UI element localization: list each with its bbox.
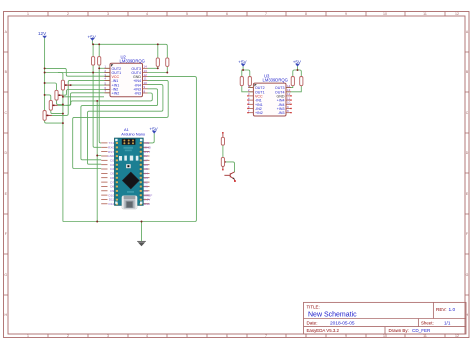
U3 pin numbers	[248, 84, 291, 113]
resistor R pullup2 (x99)	[98, 57, 101, 66]
potentiometer RP D	[43, 111, 52, 121]
wire subcircuit pot wiper to transistor	[226, 162, 235, 172]
chip diamond	[122, 172, 139, 189]
svg-text:1.0: 1.0	[449, 307, 456, 313]
caps row	[119, 156, 138, 161]
U2 pin stubs left	[105, 68, 111, 93]
svg-text:2: 2	[67, 334, 69, 338]
svg-text:3: 3	[107, 12, 109, 16]
+5V flag U2	[88, 35, 97, 41]
+5V flag U3 right	[293, 59, 302, 66]
wire pot C bottom join	[51, 110, 63, 113]
svg-text:10: 10	[383, 12, 387, 16]
svg-text:2018-05-05: 2018-05-05	[330, 320, 355, 326]
svg-text:8: 8	[305, 12, 307, 16]
svg-text:LM339DRQG: LM339DRQG	[263, 78, 288, 83]
svg-text:D10: D10	[109, 193, 115, 197]
wire GND net drop from hairpin to arduino row4	[97, 101, 101, 156]
resistor R pullup1 (x93)	[92, 57, 95, 66]
svg-text:12: 12	[455, 334, 459, 338]
svg-text:11: 11	[423, 12, 427, 16]
svg-text:-IN3: -IN3	[278, 111, 285, 115]
svg-text:3: 3	[107, 334, 109, 338]
nano silk	[127, 191, 134, 193]
title block text	[307, 305, 456, 334]
U3 pin names right	[275, 86, 285, 115]
wire U2 pin13 to pullup	[148, 66, 168, 72]
resistor U3 pullup right2	[300, 77, 303, 86]
svg-text:A5: A5	[144, 167, 148, 171]
svg-text:RST: RST	[144, 150, 150, 154]
border ticks right	[465, 52, 469, 295]
usb connector	[122, 196, 137, 209]
svg-text:A7: A7	[144, 159, 148, 163]
arduino pin stubs right	[143, 143, 149, 204]
resistor R pullup4 (x167)	[166, 58, 169, 67]
svg-text:TITLE:: TITLE:	[307, 305, 320, 310]
svg-text:9: 9	[345, 12, 347, 16]
resistor R sub	[221, 132, 224, 145]
wire ground return from pot A bottom	[62, 90, 64, 222]
svg-text:5: 5	[186, 12, 188, 16]
wire U2 GND pin12 big loop	[63, 77, 197, 222]
resistor U3 pullup right1	[291, 77, 294, 86]
U2 pin stubs right	[143, 68, 148, 93]
wire pullup to U2 pin1 OUT2	[99, 67, 110, 69]
svg-text:4: 4	[146, 12, 148, 16]
svg-text:4: 4	[146, 334, 148, 338]
resistor U3 pullup left2	[248, 77, 251, 86]
wire pot B wiper to U2 pin6	[63, 90, 110, 96]
arduino pin labels right	[144, 141, 152, 206]
wire pot A top arc to pin2 line	[58, 73, 63, 81]
svg-text:D2: D2	[110, 159, 114, 163]
svg-text:New Schematic: New Schematic	[308, 311, 357, 318]
U3 pin stubs right	[286, 88, 291, 113]
svg-text:RST: RST	[108, 150, 114, 154]
svg-text:TX1: TX1	[109, 141, 115, 145]
U2 pin names left	[112, 67, 122, 96]
potentiometer RP sub	[221, 157, 224, 170]
wire U3 left pullup bottoms	[242, 86, 254, 92]
svg-text:+5V: +5V	[293, 59, 302, 64]
wire pot B bottom join	[57, 100, 63, 104]
wire rail to pot C top	[45, 95, 51, 101]
arduino board pcb	[115, 138, 144, 209]
svg-text:D13: D13	[144, 202, 150, 206]
resistor R pullup3 (x158)	[156, 58, 159, 67]
+12V flag	[38, 31, 47, 39]
transistor Q1	[224, 172, 235, 182]
ISP header	[122, 139, 136, 145]
wire hairpin pin8	[67, 93, 153, 105]
border ticks left	[4, 52, 9, 295]
border ticks bottom	[48, 334, 445, 338]
wire ground stem	[141, 222, 143, 242]
wire hairpin pin9	[81, 89, 158, 160]
border ticks top	[48, 12, 445, 17]
wire pot D wiper to U2 pin4	[52, 80, 110, 115]
wire arduino GND pin to ground net	[96, 156, 98, 222]
svg-text:VIN: VIN	[144, 141, 149, 145]
svg-text:2: 2	[67, 12, 69, 16]
svg-text:+IN2: +IN2	[255, 111, 263, 115]
potentiometer RP A	[61, 80, 71, 90]
+5V flag arduino	[149, 126, 158, 133]
silk text ARDUINO	[124, 147, 134, 149]
svg-text:12: 12	[455, 12, 459, 16]
svg-text:+5V: +5V	[149, 126, 158, 131]
arduino pin labels left	[107, 141, 115, 206]
wire pullup left bottoms	[93, 65, 99, 72]
svg-text:D4: D4	[110, 167, 114, 171]
title block	[304, 302, 467, 334]
svg-text:A1: A1	[144, 185, 148, 189]
wire U2 pin14 to pullup	[148, 66, 158, 68]
gold pad columns	[116, 142, 143, 204]
svg-text:Sheet:: Sheet:	[421, 320, 434, 325]
ground	[137, 241, 146, 246]
svg-text:REV:: REV:	[436, 307, 447, 312]
U3 pin stubs left	[248, 88, 253, 113]
svg-text:A3: A3	[144, 176, 148, 180]
wire 12V rail vertical	[44, 38, 46, 110]
+5V flag U3 left	[238, 59, 247, 66]
svg-text:1: 1	[27, 334, 29, 338]
mounting holes	[115, 139, 142, 204]
resistor U3 pullup left1	[240, 77, 243, 86]
wire U3 right pullup bottoms	[286, 86, 301, 92]
svg-text:12V: 12V	[38, 31, 47, 36]
svg-text:G: G	[466, 273, 469, 277]
svg-text:F: F	[466, 232, 468, 236]
svg-text:6: 6	[226, 334, 228, 338]
wire pot A wiper to U2 pin5	[71, 84, 110, 86]
wire rail to pot B top	[45, 83, 57, 90]
wire +5V rail top	[92, 41, 167, 58]
potentiometer RP B	[55, 90, 63, 100]
svg-text:D12: D12	[109, 202, 115, 206]
svg-text:8: 8	[305, 334, 307, 338]
potentiometer RP C	[49, 100, 57, 110]
wire arduino +5V flag	[143, 133, 154, 143]
svg-text:CD_FER: CD_FER	[412, 328, 431, 333]
svg-text:9: 9	[345, 334, 347, 338]
svg-text:Drawn By:: Drawn By:	[389, 328, 409, 333]
svg-text:1/1: 1/1	[444, 320, 451, 325]
svg-text:7: 7	[265, 334, 267, 338]
svg-text:7: 7	[265, 12, 267, 16]
svg-text:EasyEDA V5.3.2: EasyEDA V5.3.2	[307, 328, 340, 333]
wire OUT1 drop to arduino row2	[93, 73, 101, 148]
wire rail to U2 VCC pin3	[45, 68, 110, 76]
wire U3 left flag to resistors	[242, 66, 250, 76]
svg-text:10: 10	[383, 334, 387, 338]
svg-text:6: 6	[226, 12, 228, 16]
svg-text:5: 5	[186, 334, 188, 338]
wire OUT2 drop to arduino row1	[99, 68, 101, 143]
svg-text:G: G	[4, 273, 7, 277]
svg-text:D8: D8	[110, 185, 114, 189]
svg-text:11: 11	[423, 334, 427, 338]
wire hairpin pin11	[73, 80, 169, 168]
wire subcircuit resistor to pot	[222, 145, 224, 157]
wire pot A bottom line to U2 pin7 area	[63, 96, 104, 98]
arduino pin stubs left	[101, 143, 107, 204]
wire pot C wiper to U2 pin7	[58, 93, 110, 106]
svg-text:+5V: +5V	[238, 59, 247, 64]
wire U3 right flag to resistors	[293, 66, 302, 76]
svg-text:-IN3: -IN3	[134, 92, 141, 96]
U3 unconnected pin marks	[247, 95, 291, 113]
wire rail to U2 pin2 OUT1	[45, 72, 110, 74]
svg-text:+IN2: +IN2	[112, 92, 120, 96]
U2 pin numbers	[104, 65, 147, 94]
svg-text:LM339DRQG: LM339DRQG	[120, 59, 145, 64]
svg-text:AREF: AREF	[144, 193, 152, 197]
svg-text:1: 1	[27, 12, 29, 16]
U2 pin names right	[131, 67, 141, 96]
op-amp U3 body	[253, 83, 286, 116]
wire hairpin pin10	[88, 85, 163, 165]
svg-text:F: F	[5, 232, 7, 236]
svg-text:D6: D6	[110, 176, 114, 180]
svg-text:Arduino Nano: Arduino Nano	[121, 131, 145, 136]
op-amp U2 body	[110, 63, 143, 96]
button	[126, 164, 131, 168]
svg-text:Date:: Date:	[307, 320, 318, 325]
U3 pin names left	[255, 86, 265, 115]
wire pot D bottom join	[45, 120, 63, 123]
